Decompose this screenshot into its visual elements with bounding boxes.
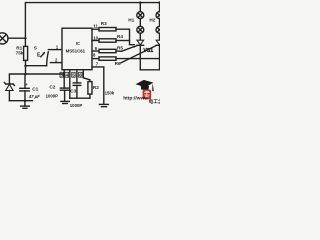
svg-text:11: 11 bbox=[93, 24, 98, 29]
wire SCR1 gate stub bbox=[134, 45, 137, 47]
wire switch feed bbox=[26, 65, 47, 67]
IC pin 7 wire bbox=[92, 67, 104, 104]
wire cathode bottom bus bbox=[140, 69, 160, 71]
node top bus column2 bbox=[158, 1, 161, 4]
svg-text:C2: C2 bbox=[49, 84, 55, 89]
zener diode VD bbox=[4, 83, 14, 86]
thyristor VS2 bbox=[156, 40, 163, 45]
svg-text:R2: R2 bbox=[93, 85, 99, 90]
svg-text:1000P: 1000P bbox=[70, 103, 83, 108]
node junction main rail bbox=[24, 73, 27, 76]
thyristor VS1 bbox=[137, 40, 144, 45]
svg-text:R4: R4 bbox=[117, 34, 123, 39]
wire lamp to SCR2 bbox=[159, 33, 161, 40]
svg-text:R6: R6 bbox=[115, 61, 121, 66]
wire top bus bbox=[25, 3, 160, 39]
lamp H1 lower bbox=[137, 26, 144, 33]
wire SCR2 cathode down bbox=[159, 45, 161, 70]
svg-text:47 µF: 47 µF bbox=[28, 94, 40, 99]
resistor R3 bbox=[99, 28, 116, 31]
svg-text:MS51C61: MS51C61 bbox=[66, 49, 86, 54]
generator/plug X1 (left edge circle) bbox=[0, 33, 8, 44]
wire zener to bus bbox=[8, 91, 10, 101]
pin number cell 4 bbox=[65, 72, 69, 77]
capacitor C2 plates bbox=[60, 87, 68, 89]
ground pin7 bbox=[99, 103, 108, 105]
IC bottom lead pin 6 bbox=[83, 70, 90, 82]
watermark logo red seal bbox=[143, 90, 152, 100]
wire below R1 bbox=[25, 60, 27, 74]
IC U1 box MS51C61 bbox=[62, 28, 92, 69]
IC right pin stub 9 bbox=[92, 50, 99, 52]
wire between lamps col2 bbox=[159, 19, 161, 27]
node top bus column1 bbox=[139, 1, 142, 4]
wire R3 to SCR1 gate bbox=[116, 29, 134, 45]
wire rail left to zener bbox=[9, 74, 25, 84]
pin number cell 3 bbox=[60, 72, 63, 77]
lamp H1 upper bbox=[137, 12, 144, 19]
capacitor C2 bottom wire bbox=[64, 90, 66, 101]
wire diagonal to SCR2 gate bbox=[121, 46, 156, 63]
wire between lamps col1 bbox=[139, 19, 141, 27]
lamp H2 upper bbox=[156, 12, 163, 19]
node junction at R1 top bbox=[24, 37, 26, 39]
resistor R2 bbox=[88, 82, 92, 95]
IC right pin stub 8 bbox=[92, 58, 99, 60]
capacitor C3 plates bbox=[73, 82, 81, 84]
capacitor C1 bottom wire bbox=[24, 91, 26, 101]
IC bottom lead pin 5 bbox=[76, 70, 78, 83]
wire RC bottom rail bbox=[70, 97, 90, 99]
svg-text:H2: H2 bbox=[149, 18, 155, 23]
ground main bbox=[24, 101, 26, 106]
resistor R1 bbox=[24, 46, 28, 60]
svg-text:VS1: VS1 bbox=[143, 48, 153, 54]
wire main rail to pin3 bbox=[26, 73, 65, 75]
IC bottom lead pin 3 bbox=[63, 70, 65, 88]
svg-text:10: 10 bbox=[93, 35, 98, 40]
node junction switch feed bbox=[24, 64, 27, 67]
wire R2 bottom bbox=[89, 94, 91, 98]
wire IC pin 1 bbox=[48, 49, 62, 51]
svg-text:R3: R3 bbox=[101, 21, 107, 26]
lamp H2 lower bbox=[156, 26, 163, 33]
capacitor C3 bottom wire bbox=[76, 85, 78, 98]
svg-text:150k: 150k bbox=[105, 90, 115, 95]
svg-text:1000P: 1000P bbox=[46, 93, 59, 98]
capacitor C1 plates bbox=[20, 87, 29, 89]
pin number cell 6 bbox=[79, 72, 83, 77]
switch S actuation arrow bbox=[41, 53, 45, 57]
resistor R6 bbox=[99, 57, 116, 60]
wire lamp to SCR1 bbox=[139, 33, 141, 40]
svg-text:http://www: http://www bbox=[123, 96, 148, 102]
svg-text:C1: C1 bbox=[32, 86, 38, 91]
svg-text:IC: IC bbox=[76, 41, 80, 46]
wire SCR1 cathode down bbox=[139, 45, 141, 70]
wire lamp column 1 drop bbox=[139, 3, 141, 12]
wire R5 diagonal bbox=[116, 47, 134, 52]
svg-text:C3: C3 bbox=[70, 89, 76, 94]
ground for C2 bbox=[61, 100, 69, 102]
svg-text:电工之: 电工之 bbox=[149, 98, 160, 105]
svg-text:R5: R5 bbox=[117, 46, 123, 51]
resistor R4 bbox=[99, 39, 116, 42]
wire into R1 bbox=[24, 38, 26, 46]
wire bottom bus bbox=[9, 100, 32, 102]
IC right pin stub 10 bbox=[92, 40, 99, 42]
svg-text:H1: H1 bbox=[128, 18, 134, 23]
wire R4 stub bbox=[116, 40, 130, 42]
wire R6 long rail bbox=[116, 58, 160, 60]
svg-text:S: S bbox=[34, 45, 37, 50]
IC bottom lead pin 4 bbox=[69, 70, 71, 99]
IC right pin stub 11 bbox=[92, 28, 99, 30]
wire IC pin 2 bbox=[50, 62, 62, 64]
capacitor C1 top wire bbox=[24, 74, 26, 88]
pin number cell 5 bbox=[72, 72, 76, 77]
wire from circle to node bbox=[8, 37, 25, 39]
wire lamp column 2 drop bbox=[159, 3, 161, 12]
switch S arm bbox=[47, 52, 49, 66]
node C1 bus junction bbox=[24, 99, 27, 102]
svg-text:75k: 75k bbox=[16, 51, 24, 56]
watermark logo cap bbox=[123, 80, 163, 105]
resistor R5 bbox=[99, 49, 116, 52]
